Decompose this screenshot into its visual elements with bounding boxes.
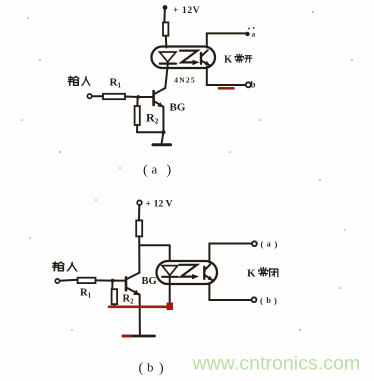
svg-text:a: a — [252, 30, 256, 39]
svg-text:(: ( — [261, 239, 264, 249]
svg-text:K: K — [224, 55, 233, 66]
svg-text:R1: R1 — [110, 77, 122, 90]
svg-text:4N25: 4N25 — [174, 76, 195, 85]
svg-text:R2: R2 — [123, 294, 135, 306]
svg-text:b: b — [266, 296, 271, 305]
svg-text:(: ( — [143, 163, 148, 178]
svg-text:): ) — [167, 163, 172, 178]
svg-text:+ 12V: + 12V — [173, 6, 200, 16]
svg-text:a: a — [267, 240, 271, 249]
svg-text:(: ( — [260, 295, 263, 305]
svg-text:R1: R1 — [80, 288, 92, 300]
svg-text:www.cntronics.com: www.cntronics.com — [192, 353, 361, 375]
svg-text:): ) — [275, 239, 278, 249]
svg-text:): ) — [274, 295, 277, 305]
svg-text:b: b — [147, 360, 154, 375]
svg-text:(: ( — [139, 361, 144, 376]
svg-text:+ 12 V: + 12 V — [146, 199, 173, 210]
svg-text:R2: R2 — [146, 111, 159, 126]
svg-text:b: b — [251, 79, 256, 89]
svg-text:K: K — [247, 268, 256, 280]
svg-text:BG: BG — [142, 276, 157, 287]
svg-text:): ) — [159, 361, 164, 376]
svg-text:a: a — [152, 162, 158, 177]
svg-text:BG: BG — [170, 102, 186, 114]
